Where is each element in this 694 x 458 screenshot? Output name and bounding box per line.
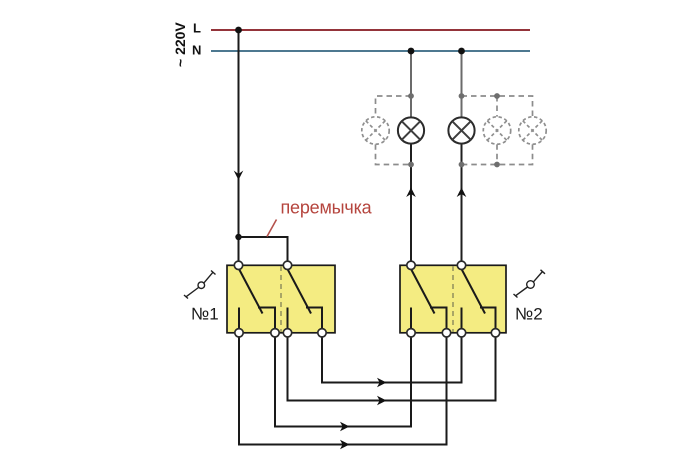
terminal SW2 T1 — [407, 329, 415, 337]
arrow up on lamp branch 1 — [406, 188, 416, 198]
wire: SW1-T2 to SW2-T1 (row 3) — [275, 333, 411, 427]
junction on jumper node — [235, 234, 241, 240]
terminal SW1 T1 — [235, 329, 243, 337]
SW2 pole B contact stub — [461, 308, 463, 331]
junction dot dashed bottom left — [408, 162, 414, 168]
arrow up on lamp branch 2 — [457, 188, 467, 198]
lamp EL2 — [398, 117, 424, 143]
junction dot dashed top at EL4 — [494, 93, 500, 99]
wire: SW1-T3 to SW2-T4 (row 2) — [288, 333, 496, 401]
junction on L line — [235, 27, 242, 34]
wire: lamp branch 2 (N to SW2 terminal B) — [461, 51, 463, 265]
switch box SW1 — [227, 265, 335, 333]
svg-text:№1: №1 — [191, 304, 219, 323]
wire: lamp branch 1 (N to SW2 terminal A) — [410, 51, 412, 265]
SW2 pole B contact bracket — [480, 308, 496, 331]
terminal SW1 T2 — [271, 329, 279, 337]
arrow right on row 1 — [377, 378, 387, 387]
lamp EL1 (optional, dashed) — [362, 117, 389, 144]
junction on N at branch 2 — [458, 48, 465, 55]
svg-text:N: N — [192, 43, 201, 58]
SW2 divider dashed — [452, 266, 454, 332]
switch box SW2 — [400, 265, 506, 333]
svg-text:№2: №2 — [515, 304, 543, 323]
junction on N at branch 1 — [408, 48, 415, 55]
dashed extension right group — [462, 96, 533, 165]
svg-text:перемычка: перемычка — [281, 198, 373, 218]
wire: neutral line N — [211, 50, 530, 52]
junction dot dashed bottom at branch 2 — [459, 162, 465, 168]
terminal SW2 T4 — [491, 329, 499, 337]
terminal SW2 top B — [457, 261, 465, 269]
junction dot dashed bottom at EL4 — [494, 162, 500, 168]
SW2 pole A blade — [411, 269, 435, 314]
dashed extension left group — [376, 96, 412, 165]
SW1 pole B contact stub — [287, 308, 289, 331]
terminal SW2 T2 — [442, 329, 450, 337]
terminal SW1 T4 — [318, 329, 326, 337]
SW1 pole A contact stub — [238, 308, 240, 331]
SW2 pole A contact stub — [410, 308, 412, 331]
arrow right on row 3 — [340, 422, 350, 431]
SW1 pole A contact bracket — [258, 308, 275, 331]
SW1 pole B blade — [288, 269, 312, 314]
wire: SW1-T4 to SW2-T3 (row 1) — [322, 333, 462, 383]
switch icon SW2 — [514, 270, 546, 298]
lamp EL3 — [448, 117, 474, 143]
SW2 pole A contact bracket — [430, 308, 447, 331]
arrow right on row 2 — [377, 396, 387, 405]
jumper wire — [239, 237, 288, 265]
callout line to jumper — [267, 220, 277, 237]
terminal SW2 T3 — [457, 329, 465, 337]
SW1 divider dashed — [280, 266, 282, 332]
svg-text:L: L — [193, 21, 201, 36]
terminal SW1 top A — [234, 261, 242, 269]
lamp EL4 (optional, dashed) — [483, 117, 510, 144]
terminal SW1 top B — [283, 261, 291, 269]
arrow down on L drop — [234, 171, 244, 181]
arrow right on row 4 — [340, 440, 350, 449]
wire: phase line L — [211, 29, 530, 31]
junction dot dashed top left — [408, 93, 414, 99]
lamp EL5 (optional, dashed) — [519, 117, 546, 144]
terminal SW2 top A — [407, 261, 415, 269]
SW1 pole A blade — [239, 269, 263, 314]
SW1 pole B contact bracket — [306, 308, 322, 331]
SW2 pole B blade — [462, 269, 486, 314]
wire: SW1-T1 to SW2-T2 (row 4) — [239, 333, 447, 445]
terminal SW1 T3 — [283, 329, 291, 337]
svg-text:~ 220V: ~ 220V — [172, 22, 188, 67]
junction dot dashed top at branch 2 — [459, 93, 465, 99]
switch icon SW1 — [184, 271, 216, 299]
wire: L drop to switch SW1 — [238, 30, 240, 265]
